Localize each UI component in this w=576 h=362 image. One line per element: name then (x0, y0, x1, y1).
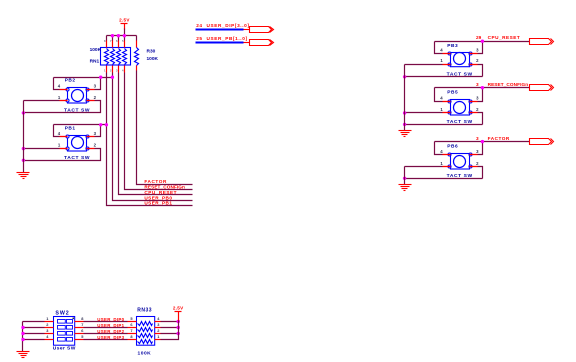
DIP switch SW2 (45, 316, 85, 345)
bus USER_PB[1..0] (196, 42, 244, 44)
wire PB5 pin2 riser (478, 113, 483, 125)
wire PB1 pin2 loop (24, 149, 101, 161)
wire 2.5V stub (bottom) (178, 312, 180, 321)
wire column FACTOR (137, 71, 193, 185)
wire PB5 bottom (405, 124, 483, 126)
wire SW2 row1 left (23, 321, 45, 323)
tact switch PB6 (440, 149, 479, 169)
svg-text:CPU_RESET: CPU_RESET (144, 190, 177, 195)
power symbol 2.5V (bottom) (173, 305, 184, 311)
wire SW2 row2 left (23, 327, 45, 329)
wire pull-up top bus (107, 35, 137, 37)
wire PB5 ground stub (404, 125, 406, 131)
junction PB1 bottom-rail (22, 159, 25, 162)
wire PB3 pin3 riser (478, 42, 483, 54)
tact switch PB1 (58, 131, 97, 151)
svg-text:3: 3 (476, 136, 479, 141)
junction RN33 rail r1 (177, 320, 180, 323)
ground (PB6) (399, 185, 412, 191)
ground (left) (17, 173, 30, 179)
svg-text:RESET_CONFIGn: RESET_CONFIGn (488, 82, 529, 87)
svg-text:USER_DIP2: USER_DIP2 (97, 329, 124, 334)
svg-text:100K: 100K (138, 351, 152, 357)
svg-text:100K: 100K (147, 56, 159, 62)
wire RN33 row4 to rail (161, 321, 179, 340)
output connector FACTOR (530, 139, 554, 145)
junction RN33 rail r2 (177, 326, 180, 329)
ground (PB5) (399, 131, 412, 137)
bus USER_DIP[3..0] (196, 29, 244, 31)
junction PB3 pin3-net (481, 40, 484, 43)
wire to output USER_PB (244, 42, 250, 44)
svg-text:PB2: PB2 (65, 78, 76, 84)
wire PB5 pin3 riser (478, 88, 483, 102)
junction PB3 bottom-rail (403, 75, 406, 78)
power symbol 2.5V (top) (119, 18, 130, 24)
wire 2.5V to bus (124, 29, 126, 36)
wire PB6 pin3 riser (478, 142, 483, 155)
wire column USER_PB0 (113, 73, 193, 201)
wire PB6 pin1 to rail (405, 166, 443, 168)
junction bus-RN1.7 (111, 34, 114, 37)
svg-text:RESET_CONFIGn: RESET_CONFIGn (144, 185, 185, 190)
svg-text:USER_DIP3: USER_DIP3 (97, 335, 124, 340)
wire PB3 bottom (405, 76, 483, 78)
svg-text:CPU_RESET: CPU_RESET (488, 35, 521, 40)
svg-text:2.5V: 2.5V (173, 305, 184, 310)
output connector RESET_CONFIGn (530, 85, 554, 91)
wire drop RN1 pin5 (124, 36, 126, 41)
svg-text:R30: R30 (147, 49, 156, 55)
output connector USER_DIP[3..0] (250, 27, 274, 33)
wire PB5 top net (435, 87, 530, 89)
svg-text:PB5: PB5 (447, 90, 458, 96)
junction bus-2.5V (123, 34, 126, 37)
svg-text:3: 3 (476, 82, 479, 87)
wire PB2 pin1 to rail (24, 100, 60, 102)
wire drop R30 top (136, 36, 138, 41)
svg-text:100K: 100K (90, 47, 102, 53)
wire SW2 row4 left (23, 339, 45, 341)
junction PB6 bottom-rail (403, 177, 406, 180)
tact switch PB5 (440, 95, 479, 115)
wire RN33 row3 right (161, 333, 179, 335)
wire PB1 pin3 riser (95, 125, 101, 137)
junction PB1-RN1 pullup (105, 123, 108, 126)
wire PB6 top net (435, 141, 530, 143)
wire PB3 pin2 riser (478, 65, 483, 77)
svg-text:FACTOR: FACTOR (488, 136, 510, 141)
wire RN33 row2 right (161, 327, 179, 329)
wire PB1 top net (54, 124, 107, 126)
svg-text:29: 29 (476, 35, 482, 40)
svg-text:7: 7 (130, 328, 132, 333)
junction PB5 pin3-net (481, 86, 484, 89)
svg-text:7: 7 (81, 322, 83, 327)
wire USER_DIP1 net (84, 327, 128, 329)
svg-text:24 USER_DIP[3..0]: 24 USER_DIP[3..0] (196, 23, 249, 28)
junction PB1 pin1-rail (22, 147, 25, 150)
output connector CPU_RESET (530, 39, 554, 45)
junction bus-RN1.6 (117, 34, 120, 37)
wire USER_DIP2 net (84, 333, 128, 335)
wire RN33 row1 right (161, 321, 179, 323)
junction SW2 rail (21, 326, 24, 329)
tact switch PB3 (440, 48, 479, 67)
wire SW2 left rail (22, 322, 24, 352)
junction PB2 bottom-rail (22, 111, 25, 114)
ground (SW2) (17, 352, 30, 358)
svg-text:SW2: SW2 (55, 311, 69, 317)
junction PB5 bottom-rail (403, 123, 406, 126)
tact switch PB2 (58, 83, 97, 103)
wire to output USER_DIP (244, 29, 250, 31)
wire PB3 pin4 riser (435, 42, 443, 54)
wire PB3 pin1 to rail (405, 64, 443, 66)
wire PB5 pin1 to rail (405, 112, 443, 114)
resistor network RN33 100K (128, 316, 161, 345)
wire drop RN1 pin7 (112, 36, 114, 41)
svg-text:FACTOR: FACTOR (144, 179, 167, 184)
resistor R30 100K (135, 41, 159, 71)
wire PB2 pin2 loop (24, 101, 101, 113)
wire PB2 top net (54, 77, 113, 79)
junction PB6 pin3-net (481, 140, 484, 143)
svg-text:PB3: PB3 (447, 43, 458, 49)
wire left ground rail (23, 101, 25, 173)
wire PB5 pin4 riser (435, 88, 443, 102)
svg-text:USER_DIP0: USER_DIP0 (97, 317, 124, 322)
wire USER_DIP0 net (84, 321, 128, 323)
wire PB6 ground stub (404, 179, 406, 185)
svg-text:USER_DIP1: USER_DIP1 (97, 323, 124, 328)
wire PB2 pin4 riser (54, 78, 60, 90)
wire PB6 pin2 riser (478, 167, 483, 179)
svg-text:RN1: RN1 (90, 58, 100, 64)
wire rail PB3-PB5 (404, 65, 406, 125)
svg-text:User SW: User SW (53, 346, 76, 352)
wire PB6 bottom (405, 178, 483, 180)
wire column RESET_CONFIGn (125, 73, 193, 190)
svg-text:25 USER_PB[1..0]: 25 USER_PB[1..0] (196, 36, 247, 41)
wire drop RN1 pin6 (118, 36, 120, 41)
output connector USER_PB[1..0] (250, 40, 274, 46)
wire PB6 pin4 riser (435, 142, 443, 155)
wire USER_DIP3 net (84, 339, 128, 341)
wire rail PB6 (404, 167, 406, 179)
svg-text:2.5V: 2.5V (119, 18, 130, 23)
wire PB1 pin1 to rail (24, 148, 60, 150)
wire PB3 top net (435, 41, 530, 43)
svg-text:USER_PB1: USER_PB1 (144, 201, 172, 206)
wire drop RN1 pin8 (106, 36, 108, 41)
junction SW2 rail (21, 338, 24, 341)
wire column CPU_RESET (119, 73, 193, 195)
junction SW2 rail (21, 332, 24, 335)
junction PB5 pin1-rail (403, 111, 406, 114)
wire PB2 pin3 riser (95, 78, 101, 90)
wire PB1 pin4 riser (54, 125, 60, 137)
resistor network RN1 100K (90, 39, 131, 73)
junction RN33 rail r3 (177, 332, 180, 335)
junction PB2-RN1 pullup (111, 76, 114, 79)
svg-text:RN33: RN33 (137, 308, 152, 314)
junction PB2 pin3-net (99, 76, 102, 79)
svg-text:PB1: PB1 (65, 125, 76, 131)
svg-text:USER_PB0: USER_PB0 (144, 195, 172, 200)
junction PB1 pin3-net (99, 123, 102, 126)
wire 2.5V stub (124, 24, 126, 30)
svg-text:PB6: PB6 (447, 143, 458, 149)
wire SW2 row3 left (23, 333, 45, 335)
wire column USER_PB1 (107, 73, 193, 206)
